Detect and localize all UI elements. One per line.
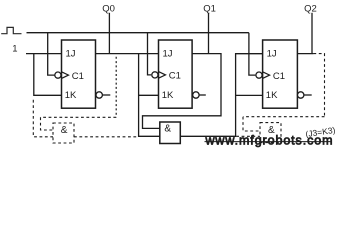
wire Q1 label stub — [208, 13, 210, 54]
wire clock line — [27, 32, 249, 34]
U2 clock bubble — [152, 72, 158, 78]
wire AND G2 output to U3 J input — [180, 54, 262, 137]
svg-text:1K: 1K — [65, 90, 77, 101]
dashed wire J3 net to AND G3 input B — [236, 135, 260, 137]
dashed wire down to AND G1 input A — [41, 117, 54, 130]
U3 clock edge triangle — [263, 72, 270, 79]
svg-text:Q2: Q2 — [304, 4, 317, 15]
dashed wire Q2 feed to AND G3 — [313, 54, 324, 117]
AND gate G3 dashed box — [260, 123, 281, 143]
U3 clock bubble — [256, 72, 262, 78]
svg-text:1: 1 — [12, 43, 17, 54]
wire Q2 label stub — [311, 13, 313, 54]
svg-text:Q1: Q1 — [203, 4, 216, 15]
svg-text:&: & — [61, 125, 68, 136]
svg-text:1K: 1K — [266, 90, 278, 101]
svg-text:&: & — [164, 123, 171, 134]
wire Q1 to AND G2 input A — [143, 54, 222, 129]
svg-text:www.mfgrobots.com: www.mfgrobots.com — [205, 134, 333, 148]
U2 inverted output bubble — [193, 92, 199, 98]
dashed wire Q0 net across under U1 — [41, 116, 117, 118]
svg-text:1J: 1J — [267, 49, 277, 60]
dashed wire down to AND G3 input A — [243, 117, 260, 131]
wire 1 to U1 J input — [26, 53, 62, 55]
U1 clock edge triangle — [62, 72, 69, 79]
wire Q0 label stub — [108, 13, 110, 54]
svg-text:C1: C1 — [273, 71, 285, 82]
dashed wire Q2 net across under U3 — [243, 116, 325, 118]
wire clock to U3 C1 input — [249, 33, 256, 75]
AND gate G1 dashed box — [53, 123, 74, 143]
wire clock to U1 C1 input — [48, 33, 55, 75]
wire Q0 row: U1 Q output to U2 J input — [96, 53, 159, 55]
flip-flop U1 box — [62, 40, 96, 108]
wire 1 to U1 K input — [34, 54, 62, 96]
dashed wire 1 to AND G1 input B — [33, 100, 53, 137]
U3 inverted output bubble — [298, 92, 304, 98]
svg-text:1J: 1J — [163, 49, 173, 60]
wire Q0 down to AND G2 input B — [139, 54, 160, 137]
dotted wire Q0 down feed to dashed net — [115, 57, 117, 118]
flip-flop U3 box — [263, 40, 298, 108]
clock pulse symbol — [1, 27, 21, 33]
U1 inverted output stub — [103, 94, 111, 96]
svg-text:1K: 1K — [162, 90, 174, 101]
AND gate G2 box — [160, 122, 181, 144]
dashed wire AND G1 output to Q0 net — [74, 136, 137, 138]
U3 inverted output stub — [304, 94, 312, 96]
wire branch to U3 K input — [236, 94, 263, 96]
wire Q2 row from U3 Q output — [297, 53, 313, 55]
svg-text:1J: 1J — [66, 49, 76, 60]
flip-flop U2 box — [159, 40, 193, 108]
wire Q0 branch to U2 K input — [139, 94, 159, 96]
U1 inverted output bubble — [96, 92, 102, 98]
U2 clock edge triangle — [159, 72, 166, 79]
watermark strikethrough line — [205, 141, 331, 143]
wire clock to U2 C1 input — [148, 33, 152, 75]
svg-text:C1: C1 — [72, 71, 84, 82]
svg-text:C1: C1 — [169, 71, 181, 82]
U2 inverted output stub — [199, 94, 206, 96]
svg-text:Q0: Q0 — [102, 4, 115, 15]
U1 clock bubble — [55, 72, 61, 78]
